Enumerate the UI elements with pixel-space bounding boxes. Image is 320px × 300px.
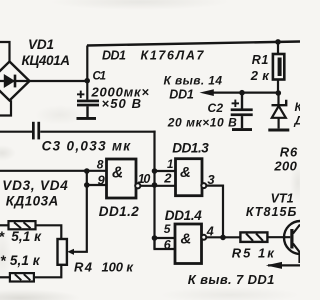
svg-text:×50 В: ×50 В [102,96,142,111]
svg-text:&: & [180,164,191,181]
svg-text:R5 1к: R5 1к [232,246,275,261]
svg-text:К: К [295,100,301,114]
wire DD1.4 pin5 [155,237,176,239]
svg-text:К выв. 14: К выв. 14 [164,73,223,87]
svg-text:6: 6 [164,238,172,252]
svg-text:КЦ401А: КЦ401А [22,53,71,68]
wire bridge bottom to left edge [0,100,11,115]
svg-text:5,1 к: 5,1 к [11,229,42,244]
svg-text:DD1: DD1 [169,87,194,101]
wire pin 8 input [0,170,107,172]
svg-text:9: 9 [98,172,106,187]
wire DD1.3 output down [206,186,223,238]
svg-text:C2: C2 [208,101,224,115]
wire top-left AC input [0,42,10,62]
wire supply drop to C1 [86,46,88,100]
op-amp DD1.3 gate [176,159,203,196]
svg-text:DD1.4: DD1.4 [165,208,202,223]
wire pin 9 input [87,184,107,186]
capacitor C2 [231,93,253,131]
resistor R5 [240,232,267,242]
svg-text:С3 0,033 мк: С3 0,033 мк [42,139,132,154]
svg-text:VT1: VT1 [271,192,294,206]
node pin8/pot junction [84,168,90,174]
svg-text:R6: R6 [280,144,298,159]
resistor R2 5.1k [0,221,61,239]
op-amp DD1.2 gate [107,159,137,198]
node DD1.3 input junctions [152,168,158,174]
svg-text:2: 2 [163,171,172,186]
node C2 junction [239,90,245,96]
op-amp DD1.4 gate [175,224,202,264]
wire top supply rail [87,42,300,46]
svg-text:DD1.2: DD1.2 [99,204,139,219]
resistor R1 [273,42,284,93]
capacitor C1 [77,91,100,120]
svg-text:DD1.3: DD1.3 [172,141,209,156]
svg-text:8: 8 [97,158,104,172]
svg-text:5,1 к: 5,1 к [10,253,41,268]
wire DD1.4 output to R5 [206,236,240,238]
wire pot wiper riser [73,171,87,252]
zener diode VD2 [272,93,287,128]
wire emitter to pin7 arrow [268,264,300,266]
svg-text:КД103А: КД103А [6,193,59,208]
DD1.3 output circle pin 3 [201,183,206,188]
svg-text:C1: C1 [93,71,107,83]
resistor R3 5.1k [0,265,61,282]
node pin5 junction [152,235,158,241]
svg-text:&: & [181,231,192,248]
node C1 junction [84,78,90,84]
wire pin14 arrow to C2/zener [205,91,279,93]
node outputs junction [220,235,226,241]
svg-text:10: 10 [138,172,151,186]
capacitor C3 [0,122,156,140]
DD1.2 output circle pin 10 [135,183,140,188]
svg-text:100 к: 100 к [102,259,135,274]
wire bridge output to C1 node [30,80,88,82]
label C1 value [91,71,150,112]
svg-text:КТ815Б: КТ815Б [246,205,297,219]
svg-text:5: 5 [164,222,171,236]
transistor VT1 [284,221,317,263]
svg-text:VD3, VD4: VD3, VD4 [2,178,68,193]
wire DD1.4 pin6 jog [155,238,176,249]
wire feedback vertical [153,131,155,249]
svg-text:200: 200 [273,158,297,173]
node R1 top [275,39,281,45]
wire R5 to VT1 base [267,236,290,238]
svg-text:DD1: DD1 [102,48,126,62]
bridge rectifier VD1 diamond [0,62,30,101]
svg-text:R1: R1 [252,53,269,67]
diode inside VD1 [0,75,30,88]
node zener top [276,90,282,96]
svg-text:20 мк×10 В: 20 мк×10 В [167,116,237,130]
svg-text:К выв. 7 DD1: К выв. 7 DD1 [188,272,274,287]
DD1.4 output circle pin 4 [201,235,206,240]
svg-text:R4: R4 [74,260,93,275]
wire DD1.3 pin1 [155,170,176,172]
svg-text:&: & [112,164,123,181]
svg-text:VD1: VD1 [28,37,54,52]
potentiometer R4 [58,239,67,265]
svg-text:Д: Д [294,114,301,128]
svg-text:1: 1 [167,159,173,171]
